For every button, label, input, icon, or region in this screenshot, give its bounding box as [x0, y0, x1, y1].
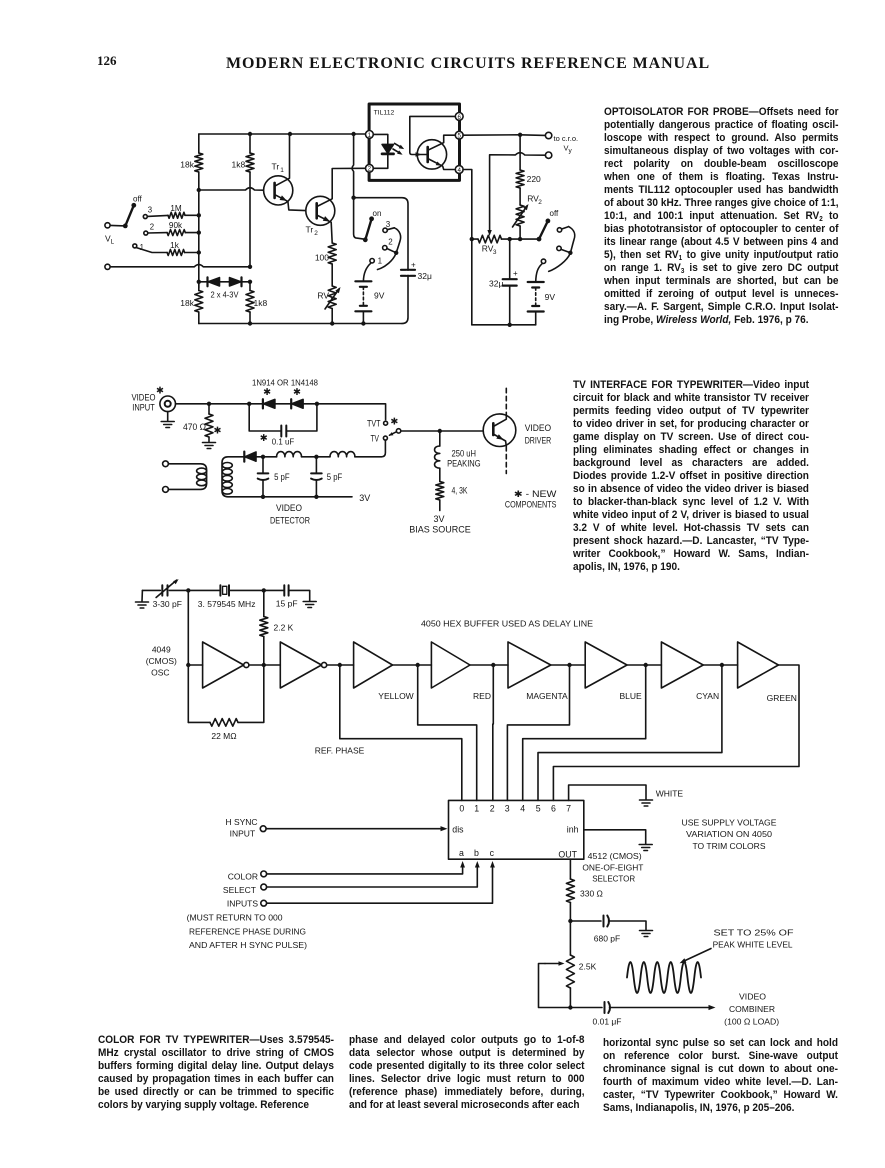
diode video detector — [222, 457, 244, 497]
diode D2 1N914 — [290, 399, 292, 408]
svg-text:dis: dis — [452, 825, 464, 835]
svg-text:TIL112: TIL112 — [374, 110, 395, 117]
svg-text:(MUST RETURN TO 000: (MUST RETURN TO 000 — [187, 913, 283, 923]
node TVT contact — [384, 421, 388, 425]
svg-text:✱: ✱ — [390, 417, 398, 428]
svg-text:1: 1 — [474, 803, 479, 813]
buffer MAGENTA — [508, 642, 551, 688]
inductor filter 2 — [330, 452, 355, 457]
wire lower input (hops 18k bus) — [111, 265, 250, 267]
svg-text:CYAN: CYAN — [696, 691, 719, 701]
wire pin5 to output terminal — [463, 134, 545, 137]
node junction top rail Tr1 collector — [288, 132, 292, 136]
switch on/off battery block outline — [354, 198, 408, 324]
resistor 470 ohm — [208, 404, 210, 414]
svg-text:2: 2 — [368, 166, 372, 173]
svg-text:90k: 90k — [169, 221, 183, 230]
resistor 100 emitter Tr2 — [328, 243, 336, 264]
transistor video driver — [483, 414, 516, 447]
wire input to diodes — [176, 403, 250, 405]
wire buffer chain — [188, 664, 202, 666]
diode pair 2 x 4-3V back-to-back — [199, 281, 250, 283]
wire top rail circuit1 — [199, 133, 366, 135]
svg-text:REFERENCE PHASE DURING: REFERENCE PHASE DURING — [189, 927, 306, 937]
svg-text:to c.r.o.: to c.r.o. — [554, 134, 579, 143]
resistor 4.3K bias — [439, 468, 441, 481]
svg-text:SELECTOR: SELECTOR — [592, 874, 635, 884]
svg-text:SELECT: SELECT — [223, 885, 256, 895]
resistor 1k8 lower — [246, 291, 254, 313]
pin 6 — [455, 113, 463, 121]
svg-text:250 uH: 250 uH — [452, 449, 477, 459]
crystal 3.579545 MHz — [220, 585, 229, 595]
node contact a — [557, 228, 561, 232]
wire lower terminal to RV3 wiper — [490, 153, 546, 232]
capacitor 0.01 uF — [570, 1007, 602, 1009]
wire rotary arc left block — [387, 228, 394, 230]
svg-text:VIDEO: VIDEO — [525, 423, 552, 433]
svg-text:3: 3 — [493, 249, 497, 256]
svg-text:3V: 3V — [359, 493, 370, 503]
wire color select b — [261, 884, 267, 890]
phototransistor — [417, 140, 446, 169]
IC 4512 selector — [449, 800, 584, 859]
svg-text:DRIVER: DRIVER — [525, 435, 552, 445]
svg-text:4: 4 — [520, 803, 525, 813]
capacitor 5pF second — [315, 457, 317, 473]
node TV contact — [383, 436, 387, 440]
svg-text:+: + — [411, 261, 416, 270]
svg-text:6: 6 — [457, 114, 461, 121]
svg-text:1: 1 — [368, 132, 372, 139]
wire green tap — [553, 665, 799, 800]
svg-text:SET TO 25% OF: SET TO 25% OF — [714, 928, 794, 938]
svg-text:TVT: TVT — [367, 418, 381, 428]
wire detector bottom rail 3V — [228, 496, 352, 498]
svg-text:ONE-OF-EIGHT: ONE-OF-EIGHT — [582, 863, 643, 873]
svg-text:COLOR: COLOR — [228, 872, 258, 882]
ground crystal right — [303, 602, 316, 608]
svg-text:3. 579545 MHz: 3. 579545 MHz — [198, 599, 256, 609]
svg-text:2: 2 — [388, 237, 393, 246]
svg-text:MAGENTA: MAGENTA — [526, 691, 568, 701]
wire cyan tap — [538, 665, 722, 800]
pin 4 — [455, 166, 463, 174]
resistor 1k8 upper — [246, 153, 254, 172]
svg-text:GREEN: GREEN — [767, 693, 797, 703]
resistor 2.2K — [263, 590, 265, 616]
svg-text:(CMOS): (CMOS) — [146, 656, 177, 666]
sine wave chroma — [627, 962, 701, 993]
svg-text:off: off — [550, 209, 560, 218]
svg-text:COMBINER: COMBINER — [729, 1004, 775, 1014]
svg-text:4: 4 — [457, 167, 461, 174]
svg-text:2: 2 — [314, 230, 318, 237]
battery 9V right — [528, 281, 544, 283]
svg-text:2.5K: 2.5K — [579, 962, 597, 972]
svg-text:1N914 OR 1N4148: 1N914 OR 1N4148 — [252, 378, 318, 388]
svg-text:2: 2 — [150, 223, 154, 232]
wire blue tap — [523, 665, 646, 800]
svg-text:AND AFTER H SYNC PULSE): AND AFTER H SYNC PULSE) — [189, 940, 307, 950]
node junction top rail pin1 branch — [351, 132, 355, 136]
svg-text:18k: 18k — [180, 298, 194, 308]
node junction top rail 1k8 — [248, 132, 252, 136]
LED emitter diode — [373, 134, 388, 144]
svg-text:✱: ✱ — [293, 387, 301, 398]
optocoupler TIL112 package — [369, 104, 459, 180]
svg-text:1: 1 — [330, 296, 334, 303]
svg-text:32μ: 32μ — [489, 279, 503, 289]
svg-text:1: 1 — [280, 167, 284, 174]
svg-text:TO TRIM COLORS: TO TRIM COLORS — [693, 841, 766, 851]
svg-text:2: 2 — [490, 803, 495, 813]
ground crystal left — [141, 590, 143, 601]
wire pin1 branch vertical (jogs) — [352, 134, 363, 239]
svg-text:off: off — [133, 195, 143, 204]
svg-text:PEAKING: PEAKING — [447, 459, 481, 469]
wire contact1 to battery — [363, 263, 370, 281]
capacitor 32u right — [509, 239, 511, 279]
svg-text:5 pF: 5 pF — [274, 472, 290, 482]
inverter U1a — [203, 642, 244, 688]
resistor 220 — [519, 135, 521, 170]
wire pin7 to white ground — [569, 785, 646, 800]
svg-text:on: on — [373, 209, 382, 218]
svg-text:+: + — [513, 269, 518, 278]
node output terminal Vy top — [545, 132, 551, 138]
svg-text:BIAS SOURCE: BIAS SOURCE — [409, 525, 471, 535]
svg-text:INPUT: INPUT — [230, 829, 256, 839]
svg-text:4, 3K: 4, 3K — [452, 486, 468, 496]
buffer CYAN — [661, 642, 703, 688]
svg-text:9V: 9V — [545, 292, 556, 302]
svg-text:VIDEO: VIDEO — [132, 393, 156, 403]
svg-text:0.01 μF: 0.01 μF — [593, 1017, 622, 1027]
inductor 250 uH peaking — [439, 431, 441, 446]
svg-text:VIDEO: VIDEO — [739, 992, 766, 1002]
svg-text:1: 1 — [140, 243, 144, 252]
svg-text:Tr: Tr — [272, 162, 280, 172]
resistor 18k lower — [195, 291, 203, 313]
svg-text:✱: ✱ — [263, 387, 271, 398]
node output terminal Vy bottom — [545, 152, 551, 158]
svg-text:0: 0 — [459, 803, 464, 813]
wire bottom rail circuit1 left — [199, 323, 402, 325]
capacitor 5pF first — [262, 457, 264, 473]
node lower input terminal — [105, 264, 110, 269]
svg-text:1k: 1k — [170, 241, 180, 250]
svg-text:15 pF: 15 pF — [276, 599, 298, 609]
buffer BLUE — [585, 642, 627, 688]
svg-text:680 pF: 680 pF — [594, 934, 620, 944]
svg-text:5: 5 — [457, 133, 461, 140]
wire contact to battery right — [536, 264, 542, 282]
svg-text:3-30 pF: 3-30 pF — [153, 599, 182, 609]
svg-text:BLUE: BLUE — [619, 691, 642, 701]
wire to TVT contact — [317, 404, 386, 420]
svg-text:y: y — [569, 148, 573, 155]
svg-text:18k: 18k — [180, 160, 194, 170]
switch lever TVT/TV — [390, 432, 397, 435]
svg-text:3: 3 — [386, 220, 391, 229]
svg-text:H SYNC: H SYNC — [225, 817, 257, 827]
wire color select c — [261, 900, 267, 906]
potentiometer 2.5K — [566, 955, 574, 988]
svg-text:INPUT: INPUT — [132, 403, 155, 413]
svg-text:220: 220 — [527, 174, 541, 184]
svg-text:INPUTS: INPUTS — [227, 899, 259, 909]
svg-text:DETECTOR: DETECTOR — [270, 516, 310, 526]
svg-text:(100 Ω LOAD): (100 Ω LOAD) — [724, 1017, 779, 1027]
svg-text:1M: 1M — [170, 204, 182, 213]
svg-text:2: 2 — [538, 199, 542, 206]
pin 2 — [366, 164, 374, 172]
svg-text:3: 3 — [148, 206, 152, 215]
wire inh to ground — [584, 830, 646, 844]
svg-text:PEAK WHITE LEVEL: PEAK WHITE LEVEL — [713, 940, 793, 950]
svg-text:b: b — [474, 848, 479, 858]
buffer YELLOW — [354, 642, 393, 688]
svg-text:22 MΩ: 22 MΩ — [211, 731, 236, 741]
svg-text:VIDEO: VIDEO — [276, 503, 302, 513]
svg-text:3V: 3V — [433, 514, 444, 524]
svg-text:32μ: 32μ — [418, 271, 432, 281]
svg-text:4049: 4049 — [152, 645, 171, 655]
svg-text:RED: RED — [473, 691, 491, 701]
svg-text:1k8: 1k8 — [254, 298, 268, 308]
capacitor 32u left block — [401, 270, 415, 276]
svg-text:✱: ✱ — [156, 386, 164, 397]
svg-text:0.1 uF: 0.1 uF — [272, 437, 295, 447]
svg-text:REF. PHASE: REF. PHASE — [315, 746, 365, 756]
capacitor 0.1 uF bypass — [249, 404, 317, 431]
inverter U1b — [280, 642, 321, 688]
buffer RED — [431, 642, 470, 688]
svg-text:USE SUPPLY VOLTAGE: USE SUPPLY VOLTAGE — [682, 818, 777, 828]
wire red tap — [492, 665, 495, 800]
pin 5 — [455, 131, 463, 139]
inductor filter 1 — [277, 452, 302, 457]
svg-text:a: a — [459, 848, 464, 858]
wire detector out to TV contact — [355, 440, 386, 456]
arrow to sine wave — [683, 949, 711, 962]
potentiometer RV3 — [472, 238, 478, 240]
svg-text:YELLOW: YELLOW — [378, 691, 413, 701]
svg-text:WHITE: WHITE — [656, 789, 684, 799]
svg-text:VARIATION ON 4050: VARIATION ON 4050 — [686, 829, 772, 839]
wire ref phase — [340, 665, 462, 800]
battery 9V left — [355, 280, 371, 282]
svg-text:OSC: OSC — [151, 668, 169, 678]
trimmer capacitor 3-30pF — [142, 589, 220, 591]
pin 1 — [366, 131, 374, 139]
svg-text:L: L — [111, 239, 115, 246]
dashed chassis line — [505, 388, 507, 414]
svg-text:✱: ✱ — [260, 433, 268, 444]
svg-text:5: 5 — [536, 803, 541, 813]
wire yellow tap — [418, 665, 477, 800]
wire magenta tap — [507, 665, 569, 800]
svg-text:6: 6 — [551, 803, 556, 813]
wire pin4 branch — [463, 170, 472, 325]
node contact c — [541, 259, 545, 263]
svg-text:4512 (CMOS): 4512 (CMOS) — [588, 851, 642, 861]
svg-text:TV: TV — [371, 433, 380, 443]
ground video input — [167, 412, 169, 421]
light arrows — [393, 143, 402, 153]
svg-text:RV: RV — [317, 291, 329, 301]
svg-text:2.2 K: 2.2 K — [274, 623, 294, 633]
rheostat RV1 — [331, 264, 333, 286]
svg-text:4050 HEX BUFFER USED AS DELAY: 4050 HEX BUFFER USED AS DELAY LINE — [421, 619, 593, 629]
svg-text:100: 100 — [315, 253, 329, 263]
transistor Tr1 — [264, 176, 293, 205]
resistor 22 Mohm feedback — [188, 721, 210, 723]
svg-text:✱: ✱ — [214, 426, 222, 437]
svg-text:330 Ω: 330 Ω — [580, 889, 603, 899]
svg-text:5 pF: 5 pF — [327, 472, 343, 482]
resistor 18k upper — [195, 153, 203, 172]
svg-text:COMPONENTS: COMPONENTS — [505, 500, 557, 510]
wire bottom rail right — [472, 324, 536, 326]
svg-text:inh: inh — [567, 825, 579, 835]
capacitor 15 pF — [284, 585, 288, 595]
wire output — [569, 988, 571, 1008]
buffer GREEN — [738, 642, 779, 688]
svg-text:Tr: Tr — [306, 225, 314, 235]
rheostat RV2 — [519, 188, 521, 205]
transformer video IF — [163, 461, 169, 467]
svg-text:3: 3 — [505, 803, 510, 813]
capacitor 680 pF — [570, 920, 601, 922]
wire H sync input — [260, 826, 266, 832]
node VL input terminal — [105, 223, 110, 228]
wire rotary arc right — [562, 227, 569, 229]
svg-text:1: 1 — [378, 257, 383, 266]
diode D1 1N914 — [249, 403, 317, 405]
svg-text:c: c — [490, 848, 495, 858]
wire left vertical bus — [198, 190, 200, 288]
wire to video driver base — [401, 430, 483, 432]
svg-text:2 x 4-3V: 2 x 4-3V — [211, 291, 240, 300]
resistor 330 ohm — [569, 859, 571, 879]
node contact b — [557, 246, 561, 250]
wire base rail to Tr1 (hops 1k8 line) — [199, 188, 263, 190]
svg-text:OUT: OUT — [558, 850, 577, 860]
svg-text:9V: 9V — [374, 291, 385, 301]
svg-text:✱ - NEW: ✱ - NEW — [514, 489, 557, 499]
wire color select a — [261, 871, 267, 877]
wire osc input — [187, 590, 189, 722]
transistor Tr2 — [306, 196, 335, 225]
svg-text:7: 7 — [566, 803, 571, 813]
svg-text:470 Ω: 470 Ω — [183, 422, 206, 432]
svg-text:1k8: 1k8 — [231, 160, 245, 170]
